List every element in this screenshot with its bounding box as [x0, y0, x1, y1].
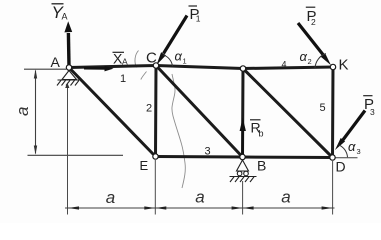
svg-text:1: 1 — [196, 14, 201, 24]
svg-text:2: 2 — [146, 103, 152, 115]
member vertical midnode-B — [241, 69, 245, 158]
svg-text:a: a — [106, 188, 115, 207]
dimension arrow pair at x=242.5 — [232, 206, 243, 209]
svg-text:3: 3 — [370, 107, 375, 117]
paper crease artifact — [172, 74, 185, 188]
svg-text:1: 1 — [183, 57, 187, 66]
svg-text:α: α — [300, 49, 308, 64]
svg-text:a: a — [281, 188, 290, 207]
wire: vertical extension line below node D — [332, 161, 334, 215]
node C — [153, 63, 158, 68]
member 5 vertical K-D — [331, 67, 335, 158]
angle arc alpha3 at D — [339, 145, 348, 157]
svg-text:α: α — [175, 49, 183, 64]
wire: thin extension line left of node A (top chord level) — [24, 68, 66, 70]
angle arc alpha1 at C — [163, 55, 173, 66]
svg-text:2: 2 — [308, 57, 312, 66]
svg-text:E: E — [140, 158, 149, 173]
dimension a (vertical, left) — [34, 69, 37, 154]
svg-text:1: 1 — [120, 73, 126, 85]
member 1 top chord A-C — [69, 66, 156, 68]
force P3 arrow — [343, 111, 366, 141]
dimension line (bottom, three segments a a a) — [65, 207, 335, 209]
force Y_A arrow — [67, 33, 71, 66]
svg-text:α: α — [348, 139, 356, 154]
angle arc alpha2 at K — [315, 54, 326, 69]
force X_A arrow — [84, 67, 106, 70]
svg-text:2: 2 — [311, 17, 316, 27]
wire: vertical extension line below node E — [154, 160, 156, 215]
member bottom chord B-D — [243, 156, 333, 160]
wire: short reference line right of D — [335, 157, 358, 159]
member diagonal A-E — [69, 68, 156, 157]
svg-text:5: 5 — [320, 102, 326, 114]
member 3 bottom chord E-B — [156, 155, 243, 159]
member 4 top chord midnode-K — [243, 67, 333, 69]
dimension arrow at x=68 pointing left — [68, 206, 79, 209]
node A — [66, 65, 71, 70]
node B — [240, 154, 245, 159]
wire: vertical extension line below support A — [67, 87, 69, 215]
stray arc mark left of C — [135, 51, 139, 68]
dimension arrow at x=332.5 pointing right — [322, 206, 333, 209]
node K — [330, 64, 335, 69]
svg-text:4: 4 — [282, 60, 287, 70]
node D — [330, 155, 335, 160]
member diagonal midnode-D — [243, 69, 333, 158]
svg-text:b: b — [259, 129, 264, 139]
force R_b reaction arrow at B — [242, 125, 244, 154]
svg-text:C: C — [146, 50, 157, 67]
force P1 arrow — [164, 16, 188, 54]
member diagonal C-B — [156, 66, 243, 158]
svg-text:a: a — [13, 107, 32, 116]
force P2 arrow — [298, 23, 325, 57]
node E — [153, 154, 158, 159]
svg-text:K: K — [339, 57, 349, 74]
support at A (pin with hatching) — [57, 71, 79, 86]
small arrow below support A — [65, 83, 69, 89]
svg-text:3: 3 — [205, 146, 211, 158]
member top chord C-midnode — [156, 66, 243, 69]
svg-text:B: B — [257, 158, 266, 174]
wire: vertical extension line below support B — [242, 181, 244, 215]
svg-text:D: D — [336, 159, 346, 175]
svg-text:A: A — [51, 54, 61, 70]
member 2 vertical C-E — [154, 66, 158, 157]
svg-text:3: 3 — [357, 147, 361, 156]
svg-text:A: A — [122, 57, 128, 67]
svg-text:A: A — [62, 12, 68, 22]
dimension arrow pair at x=155 — [144, 206, 155, 209]
stray pencil mark below-left of C — [141, 72, 147, 80]
wire: thin extension line at E level (left side) — [28, 154, 124, 156]
node midtop (above B) — [240, 66, 245, 71]
svg-text:a: a — [195, 188, 204, 207]
support at B (roller with hatching) — [230, 160, 257, 182]
